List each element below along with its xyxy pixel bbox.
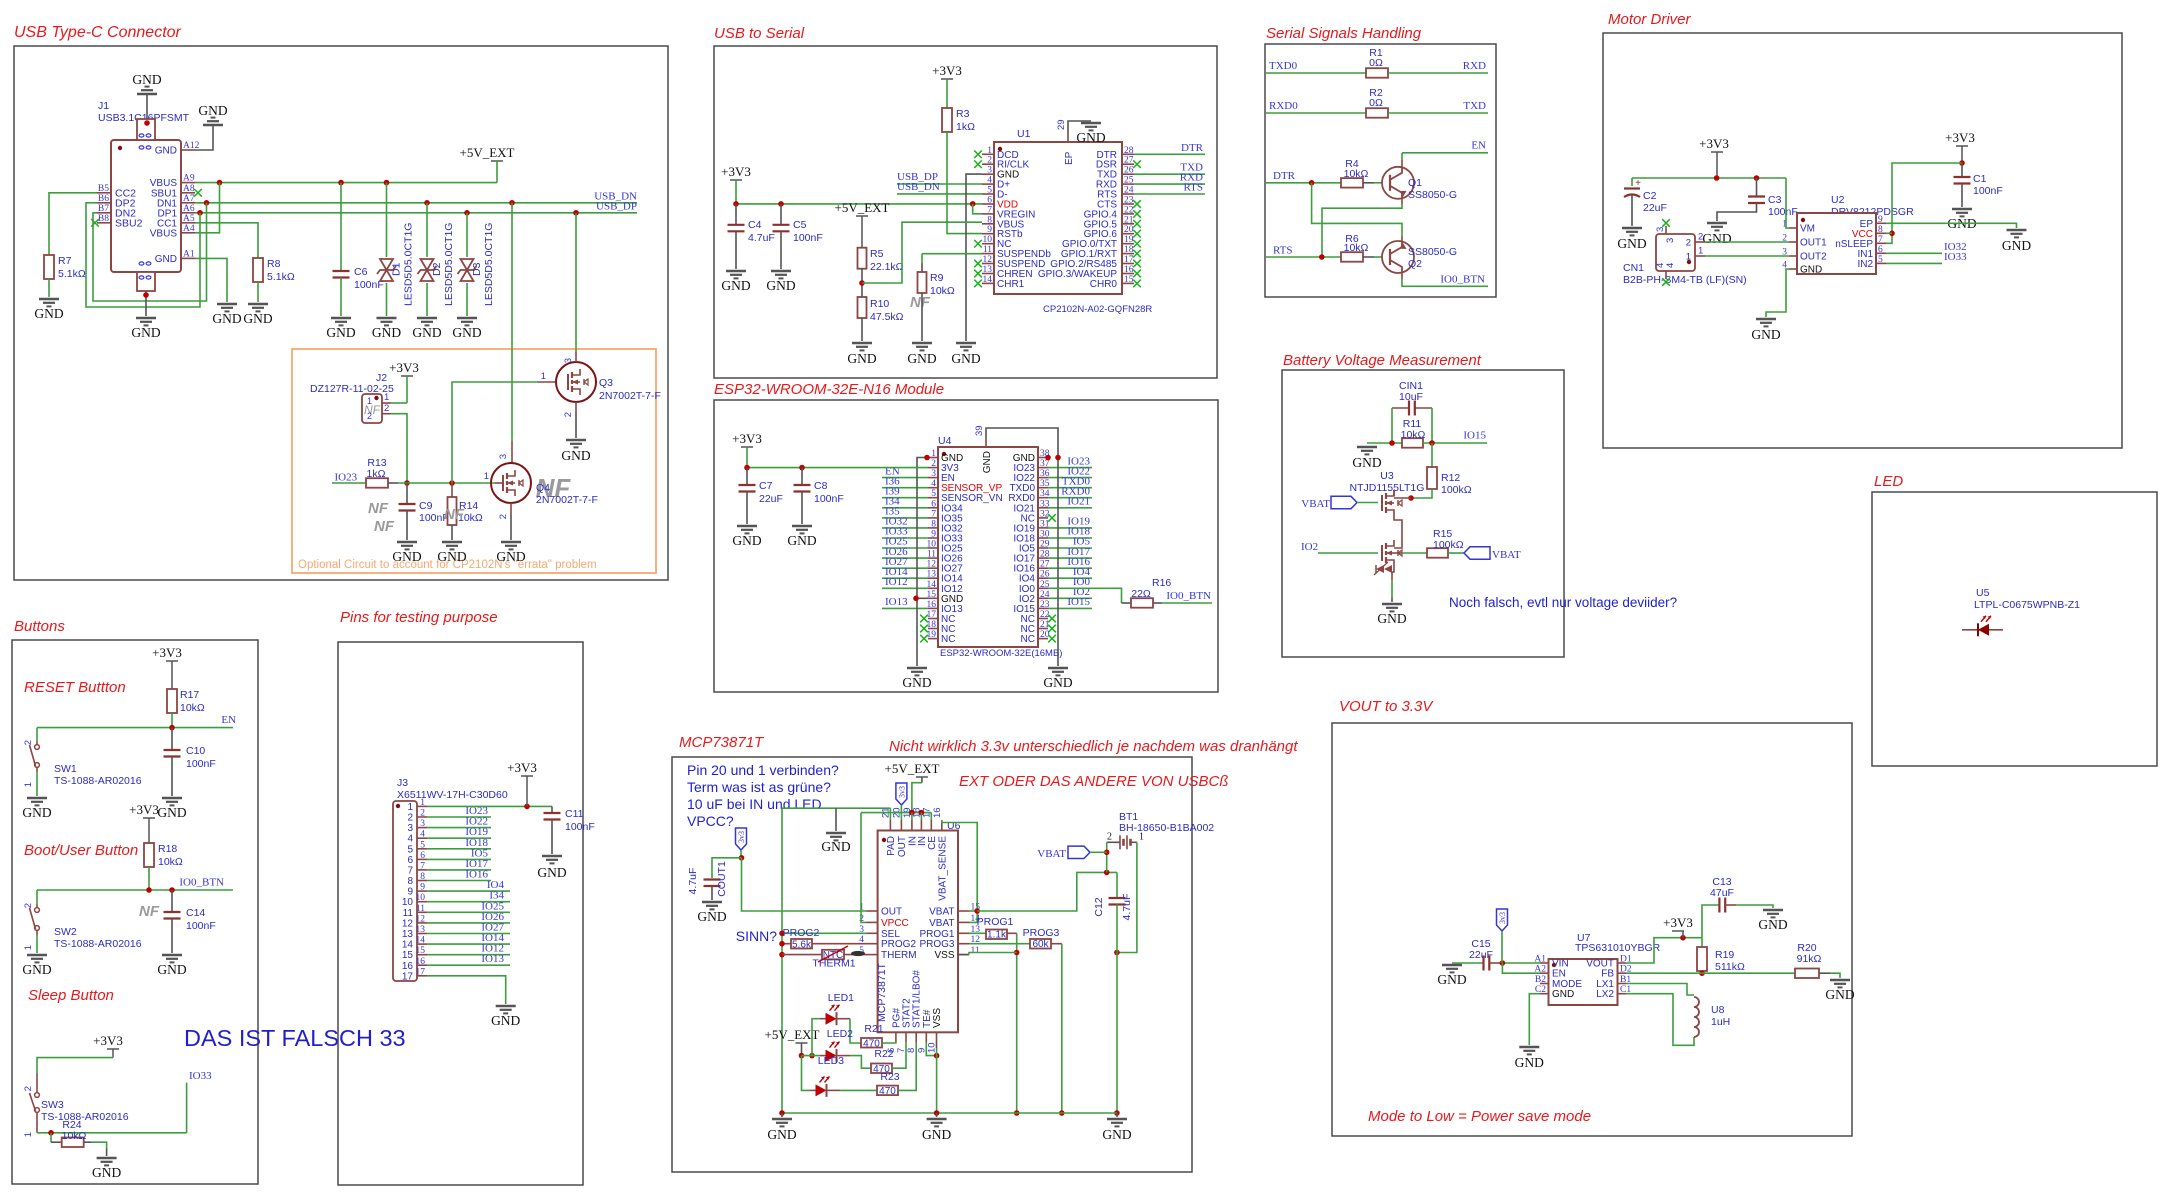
- svg-text:+3V3: +3V3: [93, 1033, 123, 1048]
- svg-text:PAD: PAD: [886, 836, 897, 856]
- svg-text:+3V3: +3V3: [1945, 130, 1975, 145]
- svg-text:2: 2: [23, 1086, 34, 1091]
- svg-text:GND: GND: [1825, 987, 1854, 1002]
- svg-text:J1: J1: [98, 100, 109, 112]
- svg-text:A4: A4: [183, 224, 195, 234]
- svg-text:NTJD1155LT1G: NTJD1155LT1G: [1350, 482, 1425, 494]
- svg-text:ESP32-WROOM-32E(16MB): ESP32-WROOM-32E(16MB): [940, 648, 1062, 659]
- svg-text:22uF: 22uF: [759, 493, 783, 505]
- svg-text:IO2: IO2: [1301, 541, 1318, 553]
- svg-text:X6511WV-17H-C30D60: X6511WV-17H-C30D60: [397, 789, 508, 801]
- svg-text:VBAT: VBAT: [1492, 549, 1521, 561]
- svg-text:SBU2: SBU2: [115, 217, 143, 229]
- svg-text:Buttons: Buttons: [14, 618, 65, 635]
- svg-text:NF: NF: [444, 506, 465, 523]
- svg-text:91kΩ: 91kΩ: [1797, 953, 1822, 965]
- svg-text:U5: U5: [1976, 587, 1990, 599]
- svg-text:GND: GND: [326, 325, 355, 340]
- svg-text:1: 1: [367, 396, 372, 406]
- svg-text:3: 3: [1665, 238, 1676, 243]
- svg-text:GND: GND: [1043, 675, 1072, 690]
- svg-text:R18: R18: [158, 843, 177, 855]
- svg-text:GND: GND: [437, 549, 466, 564]
- svg-text:PROG3: PROG3: [1023, 927, 1060, 939]
- svg-text:VSS: VSS: [934, 950, 954, 961]
- svg-text:5.1kΩ: 5.1kΩ: [267, 271, 295, 283]
- svg-text:DTR: DTR: [1181, 142, 1204, 154]
- svg-text:7: 7: [931, 509, 936, 519]
- svg-text:2: 2: [367, 411, 372, 421]
- svg-text:GND: GND: [537, 865, 566, 880]
- svg-text:5: 5: [987, 186, 992, 196]
- svg-text:VPCC?: VPCC?: [687, 813, 734, 829]
- svg-text:9: 9: [407, 887, 413, 898]
- svg-text:10: 10: [983, 235, 993, 245]
- svg-text:U1: U1: [1017, 128, 1031, 140]
- svg-text:GND: GND: [92, 1165, 121, 1180]
- svg-text:R23: R23: [880, 1071, 899, 1083]
- svg-text:15: 15: [416, 946, 426, 956]
- svg-text:29: 29: [1056, 119, 1067, 130]
- svg-text:TS-1088-AR02016: TS-1088-AR02016: [41, 1111, 129, 1123]
- svg-text:2: 2: [1686, 238, 1691, 249]
- svg-text:GND: GND: [1076, 130, 1105, 145]
- svg-text:2: 2: [498, 514, 509, 519]
- svg-text:CE: CE: [927, 836, 938, 850]
- svg-text:SS8050-G: SS8050-G: [1408, 189, 1457, 201]
- svg-text:LX2: LX2: [1596, 989, 1614, 1000]
- svg-text:GND: GND: [198, 103, 227, 118]
- svg-text:14: 14: [983, 275, 993, 285]
- svg-text:LTPL-C0675WPNB-Z1: LTPL-C0675WPNB-Z1: [1974, 599, 2080, 611]
- svg-text:6: 6: [931, 499, 936, 509]
- svg-text:VBAT_SENSE: VBAT_SENSE: [937, 836, 948, 901]
- svg-text:17: 17: [402, 971, 414, 982]
- svg-text:7: 7: [1878, 235, 1883, 245]
- svg-text:EN: EN: [1471, 140, 1486, 152]
- svg-text:2: 2: [420, 809, 425, 819]
- svg-text:1: 1: [1698, 246, 1703, 257]
- svg-text:22.1kΩ: 22.1kΩ: [870, 261, 904, 273]
- svg-text:2: 2: [23, 740, 34, 745]
- svg-text:IO13: IO13: [481, 953, 504, 965]
- svg-text:17: 17: [416, 967, 426, 977]
- svg-text:R9: R9: [930, 272, 944, 284]
- svg-text:2: 2: [563, 412, 574, 417]
- svg-text:PROG2: PROG2: [881, 939, 916, 950]
- svg-text:1: 1: [23, 782, 34, 787]
- svg-text:B2B-PH-SM4-TB (LF)(SN): B2B-PH-SM4-TB (LF)(SN): [1623, 274, 1747, 286]
- svg-text:R7: R7: [58, 255, 72, 267]
- svg-text:C12: C12: [1093, 897, 1105, 916]
- svg-text:GND: GND: [157, 805, 186, 820]
- svg-text:GND: GND: [1377, 611, 1406, 626]
- svg-text:8: 8: [420, 872, 425, 882]
- svg-text:LESD5D5.0CT1G: LESD5D5.0CT1G: [483, 223, 495, 306]
- svg-text:100nF: 100nF: [186, 758, 216, 770]
- svg-text:VOUT to 3.3V: VOUT to 3.3V: [1339, 698, 1434, 715]
- svg-text:6: 6: [1878, 245, 1883, 255]
- svg-text:RXD: RXD: [1463, 60, 1486, 72]
- svg-text:GND: GND: [155, 254, 177, 265]
- svg-text:16: 16: [932, 807, 943, 818]
- svg-text:LED1: LED1: [828, 992, 854, 1004]
- svg-text:22uF: 22uF: [1643, 202, 1667, 214]
- svg-text:11: 11: [927, 550, 936, 560]
- svg-text:A9: A9: [183, 174, 195, 184]
- svg-text:GND: GND: [697, 909, 726, 924]
- svg-text:IO23: IO23: [335, 472, 358, 484]
- svg-text:15: 15: [402, 950, 414, 961]
- svg-text:47.5kΩ: 47.5kΩ: [870, 311, 904, 323]
- svg-text:GND: GND: [721, 278, 750, 293]
- svg-text:LED2: LED2: [827, 1028, 853, 1040]
- svg-text:3v3: 3v3: [897, 786, 906, 798]
- svg-text:14: 14: [416, 936, 426, 946]
- svg-text:39: 39: [974, 425, 985, 436]
- svg-text:4: 4: [931, 479, 936, 489]
- svg-text:A8: A8: [183, 184, 195, 194]
- svg-text:ESP32-WROOM-32E-N16 Module: ESP32-WROOM-32E-N16 Module: [714, 381, 944, 398]
- svg-text:8: 8: [1878, 225, 1883, 235]
- svg-text:100nF: 100nF: [1768, 206, 1798, 218]
- svg-text:Boot/User Button: Boot/User Button: [24, 842, 138, 859]
- svg-text:4.7uF: 4.7uF: [748, 232, 775, 244]
- svg-text:Motor Driver: Motor Driver: [1608, 11, 1692, 28]
- svg-text:R21: R21: [864, 1023, 883, 1035]
- svg-text:C1: C1: [1973, 173, 1987, 185]
- svg-text:GND: GND: [951, 351, 980, 366]
- svg-text:VPCC: VPCC: [881, 918, 909, 929]
- svg-text:EP: EP: [1064, 151, 1075, 165]
- svg-text:GND: GND: [491, 1013, 520, 1028]
- svg-text:100nF: 100nF: [814, 493, 844, 505]
- svg-text:60k: 60k: [1032, 939, 1049, 950]
- svg-text:SW3: SW3: [41, 1099, 64, 1111]
- svg-text:1: 1: [484, 471, 489, 482]
- svg-text:16: 16: [402, 961, 414, 972]
- svg-text:IO13: IO13: [885, 596, 908, 608]
- svg-text:GND: GND: [902, 675, 931, 690]
- svg-text:IN2: IN2: [1857, 259, 1873, 270]
- svg-text:3v3: 3v3: [1498, 912, 1507, 924]
- svg-text:47uF: 47uF: [1710, 887, 1734, 899]
- svg-text:5: 5: [1878, 255, 1883, 265]
- svg-text:9: 9: [420, 883, 425, 893]
- svg-text:511kΩ: 511kΩ: [1715, 961, 1745, 973]
- svg-text:IO16: IO16: [465, 869, 488, 881]
- svg-text:2: 2: [931, 459, 936, 469]
- svg-text:C11: C11: [565, 808, 584, 820]
- svg-text:13: 13: [416, 925, 426, 935]
- svg-text:C9: C9: [419, 500, 433, 512]
- svg-text:GND: GND: [787, 533, 816, 548]
- svg-text:+3V3: +3V3: [1699, 136, 1729, 151]
- svg-text:TPS631010YBGR: TPS631010YBGR: [1575, 942, 1661, 954]
- svg-text:10uF: 10uF: [1399, 391, 1423, 403]
- svg-text:2: 2: [407, 813, 413, 824]
- svg-text:4.7uF: 4.7uF: [1121, 894, 1133, 921]
- svg-text:1kΩ: 1kΩ: [367, 468, 386, 480]
- svg-text:VBAT: VBAT: [929, 918, 954, 929]
- svg-text:LESD5D5.0CT1G: LESD5D5.0CT1G: [403, 223, 415, 306]
- svg-text:J3: J3: [397, 777, 408, 789]
- svg-text:20: 20: [1124, 225, 1134, 235]
- svg-text:IO33: IO33: [1944, 251, 1967, 263]
- svg-text:EN: EN: [221, 714, 236, 726]
- svg-text:6: 6: [420, 851, 425, 861]
- svg-text:25: 25: [1124, 176, 1134, 186]
- svg-text:GND: GND: [561, 448, 590, 463]
- svg-text:3: 3: [407, 823, 413, 834]
- svg-text:GND: GND: [1515, 1055, 1544, 1070]
- svg-text:0Ω: 0Ω: [1369, 57, 1383, 69]
- svg-text:+5V_EXT: +5V_EXT: [885, 761, 940, 776]
- svg-text:B5: B5: [98, 184, 109, 194]
- svg-text:GND: GND: [243, 311, 272, 326]
- svg-text:10kΩ: 10kΩ: [930, 285, 955, 297]
- svg-text:100kΩ: 100kΩ: [1433, 539, 1464, 551]
- svg-text:PROG2: PROG2: [783, 927, 820, 939]
- svg-text:SS8050-G: SS8050-G: [1408, 246, 1457, 258]
- svg-text:GND: GND: [34, 306, 63, 321]
- svg-text:R22: R22: [874, 1048, 893, 1060]
- svg-text:RTS: RTS: [1273, 245, 1293, 257]
- svg-text:+3V3: +3V3: [152, 645, 182, 660]
- svg-text:GND: GND: [1437, 972, 1466, 987]
- svg-text:GND: GND: [847, 351, 876, 366]
- svg-text:GND: GND: [155, 146, 177, 157]
- svg-text:GND: GND: [922, 1127, 951, 1142]
- svg-text:470: 470: [879, 1086, 896, 1097]
- svg-text:2: 2: [987, 156, 992, 166]
- svg-text:TS-1088-AR02016: TS-1088-AR02016: [54, 938, 142, 950]
- svg-text:USB_DP: USB_DP: [596, 201, 637, 213]
- svg-text:12: 12: [983, 255, 993, 265]
- svg-text:Mode to Low = Power save mode: Mode to Low = Power save mode: [1368, 1108, 1591, 1125]
- svg-text:IO12: IO12: [885, 576, 908, 588]
- svg-text:+5V_EXT: +5V_EXT: [835, 200, 890, 215]
- svg-text:R16: R16: [1152, 577, 1171, 589]
- svg-text:IO21: IO21: [1067, 496, 1090, 508]
- svg-text:TS-1088-AR02016: TS-1088-AR02016: [54, 775, 142, 787]
- svg-text:GND: GND: [392, 549, 421, 564]
- svg-text:100kΩ: 100kΩ: [1441, 484, 1472, 496]
- svg-text:IO15: IO15: [1463, 430, 1486, 442]
- svg-text:NC: NC: [1021, 634, 1035, 645]
- svg-text:R17: R17: [180, 689, 199, 701]
- svg-text:+3V3: +3V3: [721, 164, 751, 179]
- svg-text:VM: VM: [1800, 224, 1815, 235]
- svg-text:11: 11: [971, 946, 980, 956]
- svg-text:GND: GND: [22, 962, 51, 977]
- svg-text:C7: C7: [759, 480, 773, 492]
- svg-text:24: 24: [1124, 186, 1134, 196]
- svg-text:C5: C5: [793, 219, 807, 231]
- svg-text:10kΩ: 10kΩ: [1344, 242, 1369, 254]
- svg-text:3v3: 3v3: [737, 831, 746, 843]
- svg-text:VBUS: VBUS: [150, 228, 178, 239]
- svg-text:+3V3: +3V3: [732, 431, 762, 446]
- svg-text:VBAT: VBAT: [929, 907, 954, 918]
- svg-text:1: 1: [541, 371, 546, 382]
- svg-text:VBAT: VBAT: [1037, 848, 1066, 860]
- svg-text:11: 11: [403, 908, 414, 919]
- svg-text:3: 3: [987, 166, 992, 176]
- svg-text:1: 1: [23, 945, 34, 950]
- svg-text:U2: U2: [1831, 194, 1845, 206]
- svg-text:1uH: 1uH: [1711, 1016, 1730, 1028]
- svg-text:COUT1: COUT1: [716, 861, 728, 897]
- svg-text:5: 5: [420, 840, 425, 850]
- svg-text:18: 18: [1124, 245, 1134, 255]
- svg-text:3: 3: [1782, 248, 1787, 258]
- svg-text:Term was ist as grüne?: Term was ist as grüne?: [687, 779, 831, 795]
- svg-text:9: 9: [931, 530, 936, 540]
- svg-text:Battery Voltage Measurement: Battery Voltage Measurement: [1283, 352, 1482, 369]
- svg-text:GND: GND: [131, 325, 160, 340]
- svg-text:GND: GND: [2002, 238, 2031, 253]
- svg-text:GND: GND: [767, 1127, 796, 1142]
- svg-text:10 uF bei IN und LED: 10 uF bei IN und LED: [687, 796, 822, 812]
- svg-text:CHR0: CHR0: [1090, 279, 1118, 290]
- svg-text:10kΩ: 10kΩ: [1344, 168, 1369, 180]
- svg-text:7: 7: [987, 205, 992, 215]
- svg-text:7: 7: [420, 861, 425, 871]
- svg-text:PROG3: PROG3: [919, 939, 954, 950]
- svg-text:R8: R8: [267, 258, 281, 270]
- svg-text:4: 4: [407, 834, 413, 845]
- svg-text:TXD0: TXD0: [1269, 60, 1298, 72]
- svg-text:GND: GND: [1102, 1127, 1131, 1142]
- svg-text:GND: GND: [212, 311, 241, 326]
- svg-text:13: 13: [983, 265, 993, 275]
- svg-text:5: 5: [931, 489, 936, 499]
- svg-text:B8: B8: [98, 214, 109, 224]
- svg-text:2N7002T-7-F: 2N7002T-7-F: [536, 494, 598, 506]
- svg-text:+3V3: +3V3: [389, 360, 419, 375]
- svg-text:26: 26: [1124, 166, 1134, 176]
- svg-text:GND: GND: [821, 839, 850, 854]
- svg-text:16: 16: [416, 957, 426, 967]
- svg-text:Q3: Q3: [599, 377, 613, 389]
- svg-text:PROG1: PROG1: [977, 916, 1014, 928]
- svg-text:BH-18650-B1BA002: BH-18650-B1BA002: [1119, 822, 1214, 834]
- svg-text:7: 7: [407, 865, 413, 876]
- svg-text:10: 10: [416, 893, 426, 903]
- svg-text:4: 4: [987, 176, 992, 186]
- svg-text:PROG1: PROG1: [919, 929, 954, 940]
- svg-text:MCP73871T: MCP73871T: [876, 962, 888, 1022]
- svg-text:Q2: Q2: [1408, 258, 1422, 270]
- svg-text:C3: C3: [1768, 194, 1782, 206]
- svg-text:C8: C8: [814, 480, 828, 492]
- svg-text:GND: GND: [496, 549, 525, 564]
- svg-text:THERM: THERM: [881, 950, 917, 961]
- svg-text:8: 8: [407, 876, 413, 887]
- svg-text:GND: GND: [412, 325, 441, 340]
- svg-text:10kΩ: 10kΩ: [180, 702, 205, 714]
- svg-text:8: 8: [987, 215, 992, 225]
- svg-text:VSS: VSS: [932, 1008, 943, 1028]
- svg-text:6: 6: [407, 855, 413, 866]
- svg-text:10: 10: [402, 897, 414, 908]
- svg-text:3: 3: [498, 454, 509, 459]
- svg-text:13: 13: [402, 929, 414, 940]
- svg-text:GND: GND: [452, 325, 481, 340]
- svg-text:D1: D1: [391, 262, 403, 276]
- svg-text:RXD0: RXD0: [1269, 100, 1298, 112]
- svg-text:16: 16: [1124, 265, 1134, 275]
- svg-text:+3V3: +3V3: [129, 802, 159, 817]
- svg-text:GND: GND: [1352, 455, 1381, 470]
- svg-text:OUT1: OUT1: [1800, 238, 1827, 249]
- svg-text:1: 1: [987, 146, 992, 156]
- svg-text:11: 11: [416, 904, 425, 914]
- svg-text:MCP73871T: MCP73871T: [679, 734, 765, 751]
- svg-text:9: 9: [1878, 215, 1883, 225]
- svg-text:Noch falsch, evtl nur voltage: Noch falsch, evtl nur voltage deviider?: [1449, 595, 1677, 610]
- svg-text:1: 1: [23, 1132, 34, 1137]
- svg-text:CHR1: CHR1: [997, 279, 1025, 290]
- svg-text:Q4: Q4: [536, 482, 550, 494]
- svg-text:CP2102N-A02-GQFN28R: CP2102N-A02-GQFN28R: [1043, 304, 1152, 315]
- svg-text:R12: R12: [1441, 472, 1460, 484]
- svg-text:22Ω: 22Ω: [1131, 588, 1151, 600]
- svg-text:A6: A6: [183, 204, 195, 214]
- svg-text:THERM1: THERM1: [812, 958, 855, 970]
- svg-text:Serial Signals Handling: Serial Signals Handling: [1266, 25, 1422, 42]
- svg-text:GND: GND: [1702, 231, 1731, 246]
- svg-text:10kΩ: 10kΩ: [158, 856, 183, 868]
- svg-text:14: 14: [402, 940, 414, 951]
- svg-text:C10: C10: [186, 745, 205, 757]
- svg-text:NF: NF: [910, 294, 931, 311]
- svg-text:1kΩ: 1kΩ: [956, 121, 975, 133]
- svg-text:2: 2: [1782, 234, 1787, 244]
- svg-text:U8: U8: [1711, 1004, 1725, 1016]
- svg-text:U3: U3: [1380, 470, 1394, 482]
- svg-text:2N7002T-7-F: 2N7002T-7-F: [599, 390, 661, 402]
- svg-text:6: 6: [987, 196, 992, 206]
- svg-text:3: 3: [563, 358, 574, 363]
- svg-text:C4: C4: [748, 219, 762, 231]
- svg-text:+3V3: +3V3: [507, 760, 537, 775]
- svg-text:B6: B6: [98, 194, 109, 204]
- svg-text:USB_DN: USB_DN: [897, 181, 940, 193]
- svg-text:LED3: LED3: [818, 1055, 844, 1067]
- svg-text:GND: GND: [907, 351, 936, 366]
- svg-text:A5: A5: [183, 214, 195, 224]
- svg-text:GND: GND: [732, 533, 761, 548]
- svg-text:GND: GND: [372, 325, 401, 340]
- svg-text:2: 2: [1107, 832, 1112, 843]
- svg-text:21: 21: [1124, 215, 1134, 225]
- svg-text:USB Type-C Connector: USB Type-C Connector: [14, 24, 182, 41]
- svg-text:D3: D3: [471, 262, 483, 276]
- svg-text:R10: R10: [870, 298, 889, 310]
- svg-text:GND: GND: [132, 72, 161, 87]
- svg-text:22: 22: [1124, 205, 1134, 215]
- svg-text:10kΩ: 10kΩ: [1401, 429, 1426, 441]
- svg-text:SW2: SW2: [54, 926, 77, 938]
- svg-text:R5: R5: [870, 248, 884, 260]
- svg-text:100nF: 100nF: [793, 232, 823, 244]
- svg-text:+5V_EXT: +5V_EXT: [460, 145, 515, 160]
- svg-text:+3V3: +3V3: [1663, 915, 1693, 930]
- svg-text:IO0_BTN: IO0_BTN: [1166, 590, 1211, 602]
- svg-text:11: 11: [983, 245, 992, 255]
